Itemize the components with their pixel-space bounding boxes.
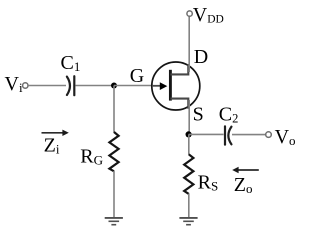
wire C2 to Vo terminal: [232, 134, 266, 136]
wire drain to VDD terminal: [188, 16, 190, 72]
resistor RG: [109, 132, 118, 171]
wire node G down to RG: [113, 86, 115, 133]
ground under RS: [179, 218, 197, 225]
terminal Vi: [23, 83, 28, 88]
wire RS to ground: [188, 194, 190, 218]
wire node S down to RS: [188, 134, 190, 154]
transistor Q1 (JFET in circle envelope): [152, 62, 200, 110]
svg-text:G: G: [130, 65, 144, 87]
wire RG to ground: [113, 171, 115, 217]
arrow Zi (input impedance, pointing right): [42, 130, 69, 136]
terminal Vo: [266, 132, 272, 138]
capacitor C2: [225, 126, 231, 144]
wire node S to C2: [189, 133, 224, 135]
svg-text:S: S: [193, 104, 204, 126]
wire source to node S: [188, 100, 190, 134]
resistor RS: [184, 154, 193, 194]
node S junction dot: [186, 131, 192, 137]
capacitor C1: [67, 76, 74, 95]
node G junction dot: [111, 83, 117, 89]
wire C1 to node G: [75, 85, 114, 87]
ground under RG: [105, 218, 123, 225]
wire Vi terminal to C1: [28, 85, 66, 87]
arrow Zo (output impedance, pointing left): [232, 167, 259, 173]
terminal VDD: [187, 11, 192, 16]
svg-text:D: D: [194, 46, 208, 68]
wire node G to transistor: [114, 85, 153, 87]
